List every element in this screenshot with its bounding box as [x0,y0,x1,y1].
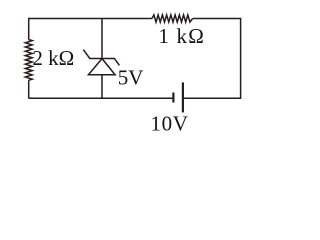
svg-text:5V: 5V [118,65,144,89]
svg-text:2 kΩ: 2 kΩ [32,46,74,70]
svg-text:1 kΩ: 1 kΩ [158,24,205,48]
svg-text:10V: 10V [151,112,189,136]
